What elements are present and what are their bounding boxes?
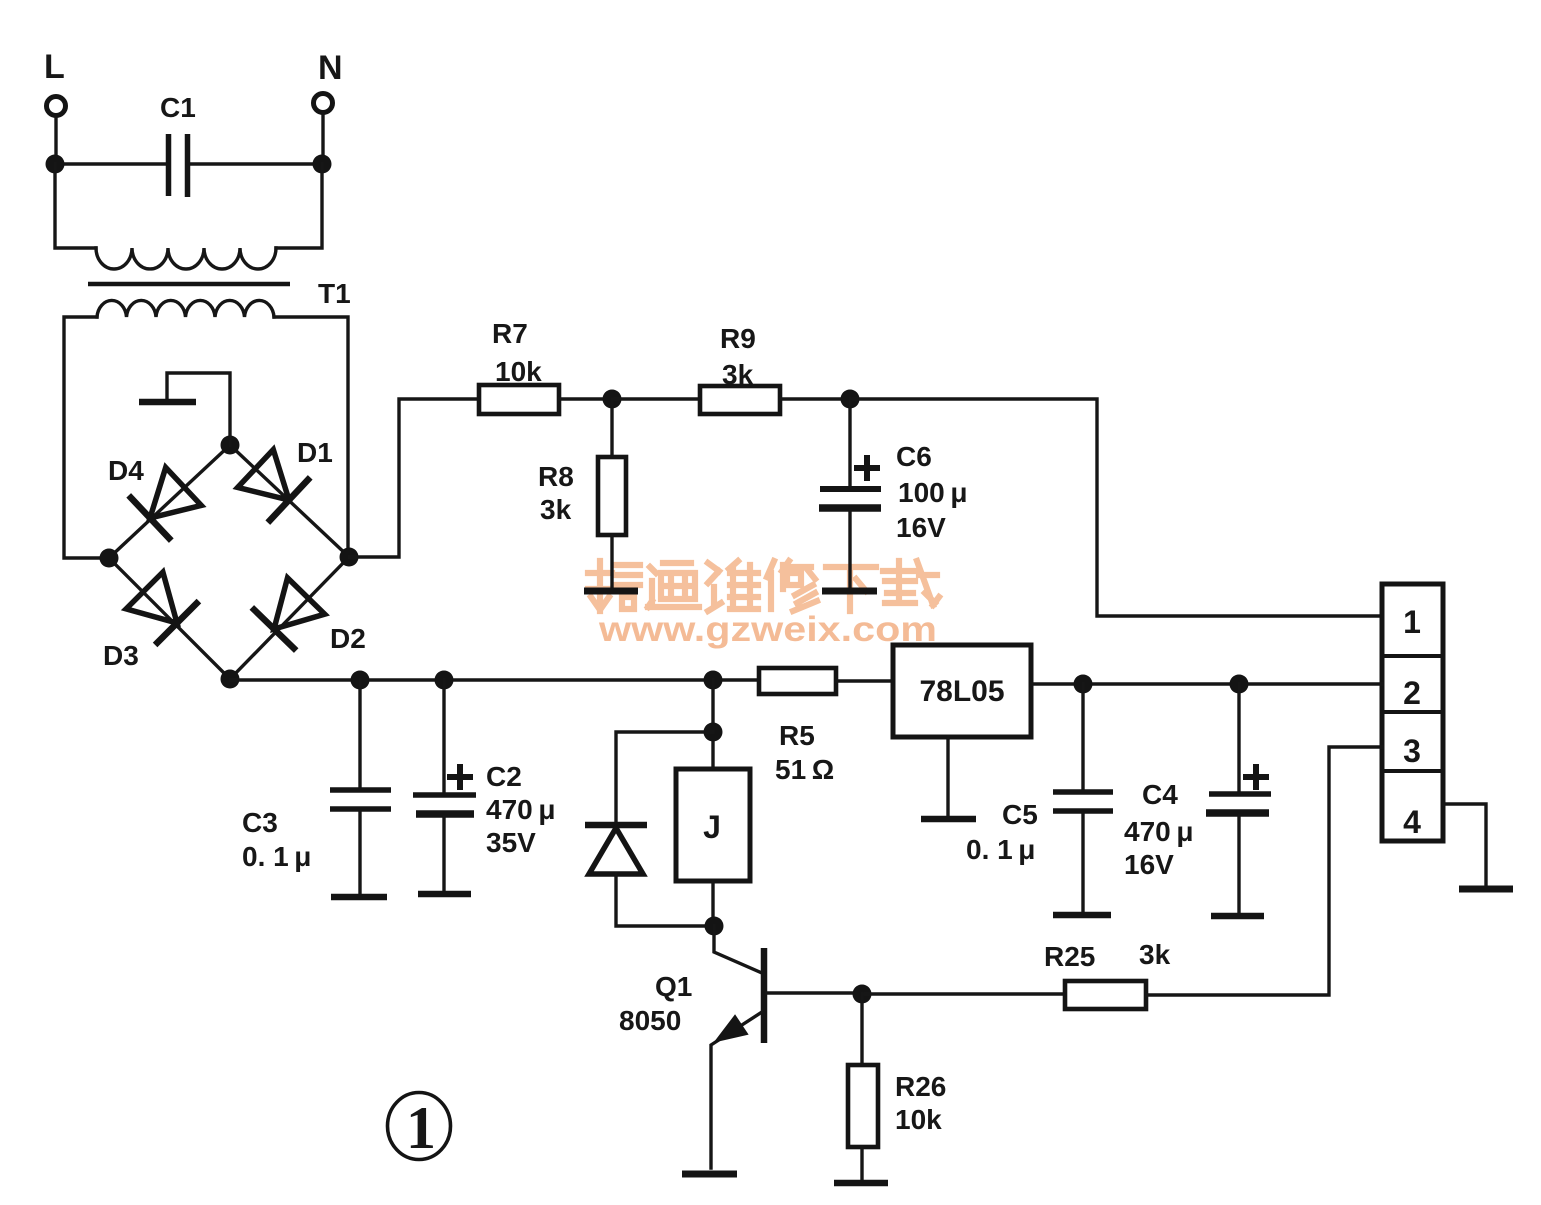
svg-text:C1: C1 (160, 92, 196, 123)
svg-text:0. 1 μ: 0. 1 μ (242, 841, 311, 872)
wire R9 to junction C6 (780, 397, 850, 400)
ground below R8 (584, 535, 638, 591)
ground bar below C3 (331, 812, 387, 897)
svg-text:L: L (44, 48, 65, 86)
wire top rail left of C1 (55, 162, 166, 165)
svg-text:D3: D3 (103, 640, 139, 671)
node bridge bottom (221, 670, 240, 689)
svg-text:T1: T1 (318, 278, 351, 309)
wire N terminal to rail (321, 113, 324, 164)
svg-text:C3: C3 (242, 807, 278, 838)
ground below C6 (822, 511, 877, 591)
connector CN1 outline (1382, 584, 1443, 841)
svg-text:100 μ: 100 μ (898, 477, 967, 508)
wire R25 to pin3 (1146, 747, 1382, 995)
wire base junction to R25 (862, 992, 1065, 995)
ground below R26 (834, 1147, 888, 1183)
transformer T1 primary winding (96, 248, 276, 269)
svg-text:16V: 16V (896, 512, 946, 543)
wire junction to R9 (612, 397, 700, 400)
wire R5 to 78L05 (836, 679, 893, 682)
svg-text:0. 1 μ: 0. 1 μ (966, 834, 1035, 865)
svg-text:470 μ: 470 μ (1124, 816, 1193, 847)
ground below Q1 emitter (682, 1171, 737, 1178)
svg-text:R5: R5 (779, 720, 815, 751)
svg-text:N: N (318, 49, 343, 87)
svg-text:10k: 10k (495, 356, 542, 387)
svg-text:C5: C5 (1002, 799, 1038, 830)
junction relay branch (704, 671, 723, 690)
wire relay bottom (711, 881, 714, 926)
svg-text:4: 4 (1403, 804, 1421, 840)
watermark text 精通维修下载 (588, 561, 939, 611)
wire bridge edge bottom-left (109, 558, 230, 679)
wire top rail right of C1 (189, 162, 322, 165)
junction base/R26 (853, 985, 872, 1004)
svg-text:3k: 3k (722, 359, 754, 390)
capacitor C5 (966, 684, 1113, 865)
resistor R8 (538, 399, 626, 535)
junction C3 (351, 671, 370, 690)
wire secondary right lead (274, 317, 348, 557)
ground bar below C2 (418, 817, 471, 894)
wire N down to transformer primary (276, 164, 322, 248)
figure number 1 circled (388, 1093, 451, 1162)
svg-text:1: 1 (1403, 604, 1421, 640)
wire rail to relay (711, 680, 714, 769)
resistor R5 (759, 668, 836, 785)
svg-text:R26: R26 (895, 1071, 946, 1102)
capacitor C3 (242, 680, 391, 872)
resistor R9 (700, 323, 780, 414)
resistor R26 (848, 994, 946, 1147)
wire bridge edge top-right (230, 445, 349, 557)
resistor R25 (1044, 939, 1171, 1009)
ground bar below C5 (1053, 814, 1111, 915)
svg-text:8050: 8050 (619, 1005, 681, 1036)
resistor R7 (479, 318, 559, 414)
wire junction to pin1 corner (850, 399, 1380, 616)
svg-text:www.gzweix.com: www.gzweix.com (598, 610, 937, 649)
junction relay/diode/collector (705, 917, 724, 936)
svg-text:C2: C2 (486, 761, 522, 792)
node bridge top (221, 436, 240, 455)
svg-text:3k: 3k (540, 494, 572, 525)
svg-text:3k: 3k (1139, 939, 1171, 970)
wire diode anode down (616, 874, 714, 926)
wire diode branch top (616, 732, 713, 822)
ground below 78L05 (921, 737, 976, 819)
svg-text:R9: R9 (720, 323, 756, 354)
node N terminal (314, 49, 343, 113)
svg-text:16V: 16V (1124, 849, 1174, 880)
svg-text:Q1: Q1 (655, 971, 692, 1002)
wire 78L05 output to pin2 (1031, 682, 1382, 685)
svg-text:10k: 10k (895, 1104, 942, 1135)
svg-text:470 μ: 470 μ (486, 794, 555, 825)
transformer T1 secondary winding (97, 300, 274, 317)
junction C4 (1230, 675, 1249, 694)
node bridge left (100, 549, 119, 568)
node bridge right (340, 548, 359, 567)
svg-text:D1: D1 (297, 437, 333, 468)
diode D3 (126, 572, 199, 645)
junction C2 (435, 671, 454, 690)
transformer T1 core (88, 282, 290, 287)
junction on N rail (313, 155, 332, 174)
capacitor C4 (1124, 684, 1271, 880)
diode D1 (238, 450, 311, 523)
wire pin4 to ground (1443, 804, 1513, 889)
diode D4 (129, 468, 202, 541)
svg-text:51 Ω: 51 Ω (775, 754, 834, 785)
transistor Q1 8050 (619, 926, 862, 1168)
junction relay top / diode (704, 723, 723, 742)
regulator U1 78L05 (893, 645, 1031, 737)
wire bridge edge left-top (109, 445, 230, 558)
wire L down to transformer primary (55, 164, 96, 248)
wire main positive rail (230, 678, 759, 681)
svg-text:C4: C4 (1142, 779, 1178, 810)
diode freewheel across relay (585, 825, 647, 874)
svg-text:R25: R25 (1044, 941, 1095, 972)
wire bridge edge right-bottom (230, 557, 349, 679)
svg-text:35V: 35V (486, 827, 536, 858)
junction R9/C6 (841, 390, 860, 409)
svg-text:3: 3 (1403, 733, 1421, 769)
wire L terminal to rail (54, 116, 57, 163)
junction on L rail (46, 155, 65, 174)
capacitor C2 (413, 680, 555, 858)
capacitor C1 (160, 92, 196, 197)
junction R7/R8/R9 (603, 390, 622, 409)
svg-text:J: J (703, 809, 721, 845)
ground bar below C4 (1211, 816, 1264, 916)
svg-text:1: 1 (406, 1095, 436, 1161)
svg-text:R7: R7 (492, 318, 528, 349)
svg-text:C6: C6 (896, 441, 932, 472)
node L terminal (44, 48, 66, 116)
diode D2 (252, 578, 325, 651)
wire secondary left lead (64, 317, 109, 558)
svg-text:2: 2 (1403, 675, 1421, 711)
junction C5 (1074, 675, 1093, 694)
wire bridge right node to R7 (349, 399, 479, 557)
svg-text:D2: D2 (330, 623, 366, 654)
wire R7 to junction (559, 397, 612, 400)
svg-text:D4: D4 (108, 455, 144, 486)
svg-text:78L05: 78L05 (919, 675, 1004, 708)
svg-text:R8: R8 (538, 461, 574, 492)
capacitor C6 (819, 399, 967, 543)
ground tap above bridge (139, 373, 230, 445)
relay J (676, 769, 750, 881)
